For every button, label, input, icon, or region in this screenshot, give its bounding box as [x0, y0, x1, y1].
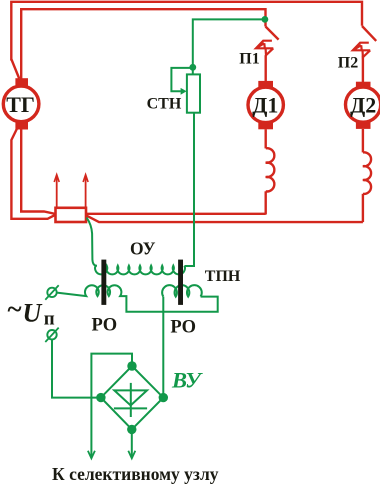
svg-text:РО: РО — [92, 316, 118, 336]
svg-text:П2: П2 — [338, 55, 358, 72]
svg-text:СТН: СТН — [147, 96, 182, 113]
svg-text:ТГ: ТГ — [6, 92, 35, 117]
svg-text:ВУ: ВУ — [171, 368, 203, 393]
svg-text:ТПН: ТПН — [205, 268, 241, 285]
svg-text:U: U — [23, 299, 43, 328]
svg-text:П1: П1 — [239, 51, 259, 68]
svg-text:Д1: Д1 — [252, 92, 278, 117]
svg-text:Д2: Д2 — [350, 92, 376, 117]
svg-text:~: ~ — [8, 294, 22, 324]
svg-text:п: п — [44, 309, 55, 330]
svg-text:К селективному узлу: К селективному узлу — [52, 464, 219, 484]
svg-text:РО: РО — [170, 318, 196, 338]
svg-text:ОУ: ОУ — [130, 239, 156, 259]
